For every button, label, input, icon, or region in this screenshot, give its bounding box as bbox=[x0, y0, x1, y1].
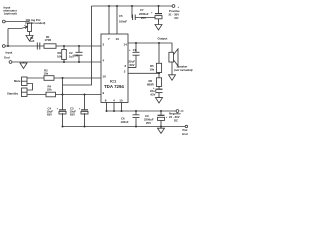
svg-text:+: + bbox=[166, 115, 168, 119]
svg-text:Gnd: Gnd bbox=[4, 56, 10, 60]
svg-text:10: 10 bbox=[103, 75, 107, 79]
svg-text:TDA 7294: TDA 7294 bbox=[104, 84, 124, 89]
svg-text:63V: 63V bbox=[130, 63, 135, 67]
svg-text:25V: 25V bbox=[141, 16, 146, 20]
svg-text:+: + bbox=[57, 107, 59, 111]
svg-text:6: 6 bbox=[125, 64, 127, 68]
svg-text:22k: 22k bbox=[47, 88, 52, 92]
svg-text:63V: 63V bbox=[151, 92, 156, 96]
svg-text:2: 2 bbox=[124, 70, 126, 74]
svg-text:1u5: 1u5 bbox=[30, 39, 35, 43]
svg-text:100nF: 100nF bbox=[121, 120, 129, 124]
svg-text:4: 4 bbox=[103, 59, 105, 63]
svg-text:+: + bbox=[129, 48, 131, 52]
svg-text:10k: 10k bbox=[150, 68, 155, 72]
svg-text:63V: 63V bbox=[47, 113, 52, 117]
svg-text:14: 14 bbox=[124, 43, 128, 47]
svg-text:Standby: Standby bbox=[7, 92, 18, 96]
svg-text:DC: DC bbox=[174, 119, 178, 123]
svg-text:Output: Output bbox=[158, 37, 168, 41]
svg-text:+: + bbox=[79, 107, 81, 111]
svg-text:680: 680 bbox=[74, 54, 79, 58]
svg-text:7: 7 bbox=[108, 37, 110, 41]
svg-text:10k: 10k bbox=[57, 55, 62, 59]
svg-text:25V: 25V bbox=[146, 121, 151, 125]
svg-text:(optional): (optional) bbox=[4, 11, 17, 15]
svg-text:+: + bbox=[151, 11, 153, 15]
svg-text:IC1: IC1 bbox=[110, 79, 117, 84]
svg-text:Input: Input bbox=[6, 51, 13, 55]
svg-text:13: 13 bbox=[116, 37, 120, 41]
svg-text:100nF: 100nF bbox=[119, 20, 127, 24]
svg-text:(not Grounded): (not Grounded) bbox=[25, 21, 45, 25]
svg-text:3: 3 bbox=[103, 43, 105, 47]
svg-text:15: 15 bbox=[119, 99, 123, 103]
svg-text:C8: C8 bbox=[133, 48, 137, 52]
svg-text:8: 8 bbox=[105, 99, 107, 103]
svg-text:9: 9 bbox=[103, 91, 105, 95]
svg-text:DC: DC bbox=[175, 16, 179, 20]
svg-text:C5: C5 bbox=[119, 14, 123, 18]
svg-text:170R: 170R bbox=[45, 38, 52, 42]
svg-text:4: 4 bbox=[113, 99, 115, 103]
svg-text:Mute: Mute bbox=[14, 79, 21, 83]
svg-text:10k: 10k bbox=[44, 72, 49, 76]
svg-text:(not included): (not included) bbox=[174, 68, 193, 72]
svg-text:63V: 63V bbox=[70, 113, 75, 117]
svg-text:Gnd: Gnd bbox=[182, 132, 188, 136]
